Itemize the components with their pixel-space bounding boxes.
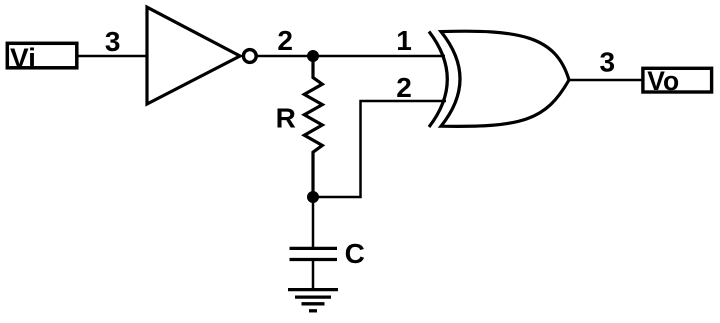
svg-text:Vo: Vo <box>647 66 679 96</box>
node junction dot top <box>307 50 319 62</box>
inverter U1 triangle <box>147 7 240 104</box>
node junction dot bottom <box>307 191 319 203</box>
capacitor C plates <box>290 247 338 250</box>
inverter output bubble <box>243 50 256 63</box>
xor gate U2 input side extra arc <box>429 32 447 128</box>
ground symbol <box>288 288 338 291</box>
resistor R zigzag <box>304 56 322 197</box>
xor gate U2 body <box>441 31 569 126</box>
wire capacitor to ground <box>312 260 315 290</box>
wire Vi to inverter input <box>77 55 148 58</box>
wire XOR output to Vo <box>569 79 644 82</box>
svg-text:3: 3 <box>600 47 616 78</box>
Vi input box <box>7 43 77 68</box>
wire junction to capacitor <box>312 197 315 248</box>
Vo output box <box>643 68 712 92</box>
svg-text:Vi: Vi <box>10 43 36 74</box>
svg-text:2: 2 <box>277 25 293 56</box>
svg-text:R: R <box>276 102 296 133</box>
svg-text:3: 3 <box>105 26 121 57</box>
svg-text:2: 2 <box>396 72 412 103</box>
wire inverter output to XOR input 1 <box>258 55 446 58</box>
svg-text:C: C <box>345 238 365 269</box>
svg-text:1: 1 <box>396 25 412 56</box>
wire junction to XOR input 2 (right then up) <box>313 101 446 197</box>
